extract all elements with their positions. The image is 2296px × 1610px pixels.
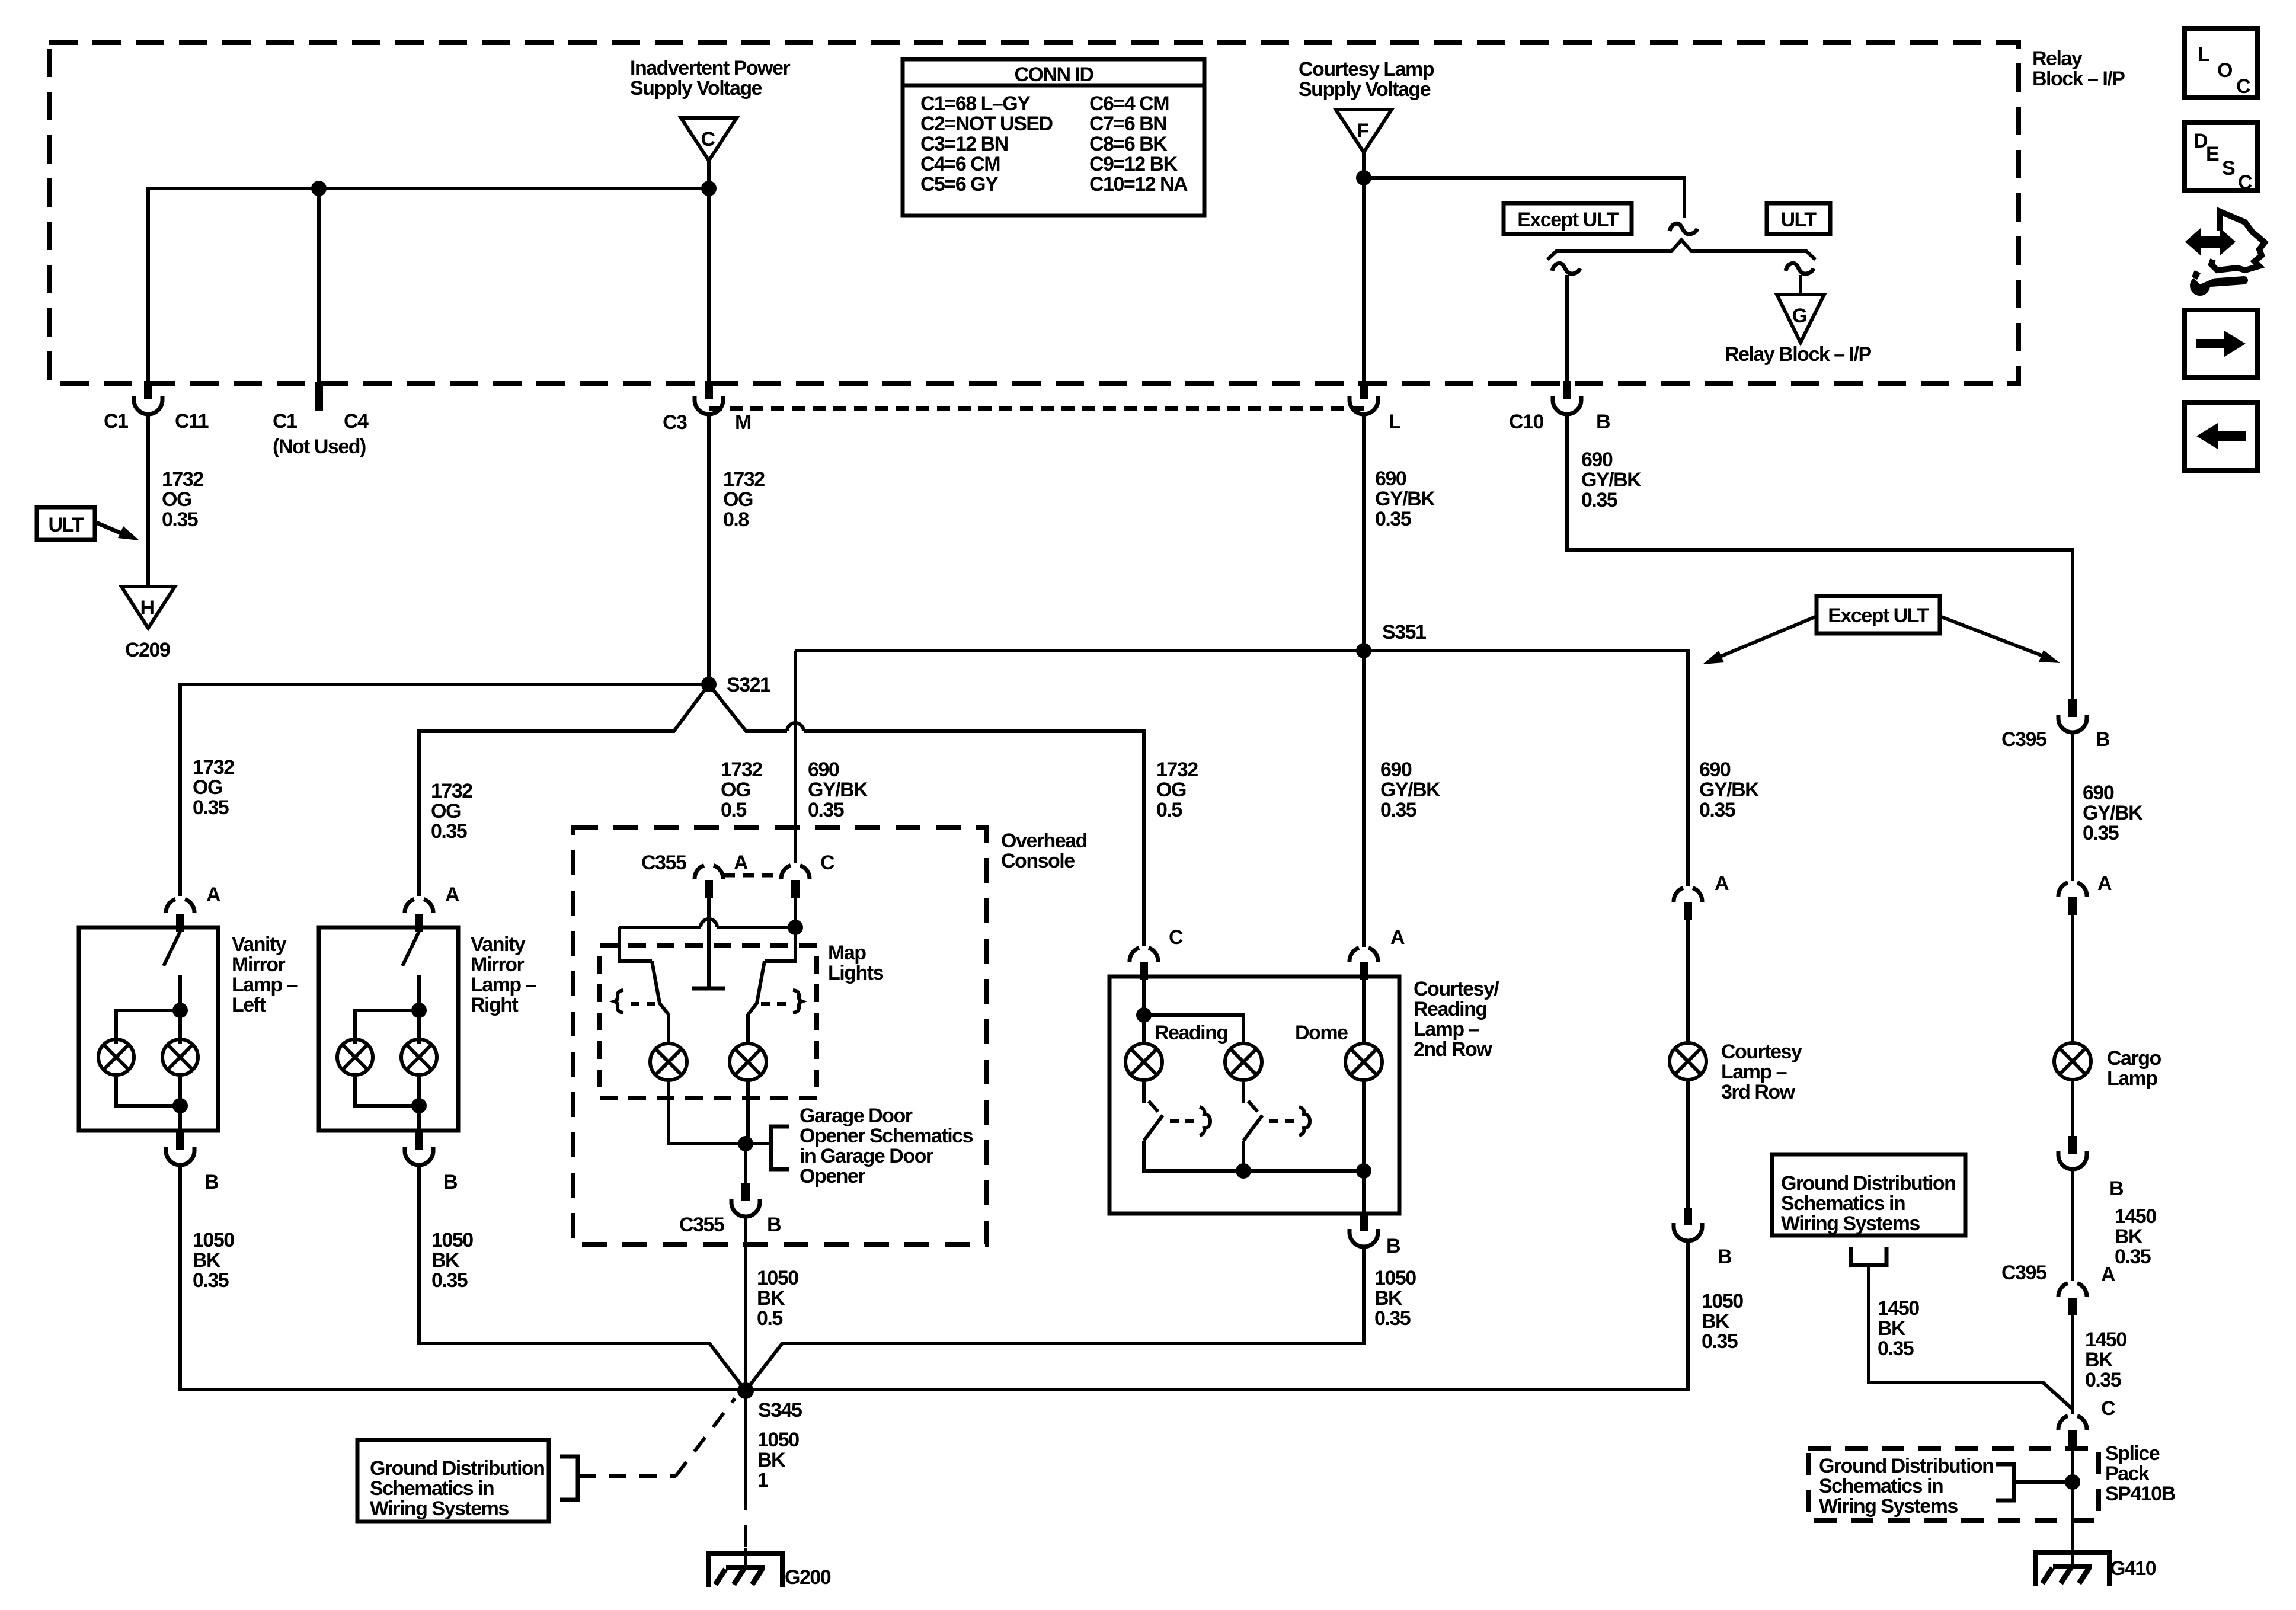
wire junction to garage door bracket [746, 1142, 771, 1145]
svg-text:Wiring Systems: Wiring Systems [1781, 1212, 1920, 1235]
svg-text:BK: BK [757, 1449, 786, 1471]
vanity left branch to lamp 1 [116, 1010, 180, 1044]
vanity right switch blade [402, 932, 419, 966]
wire C10/B down and right to cargo branch [1567, 414, 2073, 699]
svg-text:1732: 1732 [1156, 758, 1198, 781]
connector C355 B (blade and cup) [731, 1183, 760, 1217]
svg-text:GY/BK: GY/BK [1375, 488, 1435, 510]
svg-text:Courtesy: Courtesy [1721, 1041, 1802, 1063]
svg-text:1450: 1450 [1878, 1297, 1919, 1320]
svg-text:3rd Row: 3rd Row [1721, 1081, 1796, 1103]
map lamp left [650, 1044, 687, 1080]
svg-text:B: B [1596, 411, 1610, 433]
wire A to 3rd row lamp [1686, 920, 1690, 1044]
wire from F junction to break (except ULT feed) [1364, 178, 1684, 218]
wire break squiggle upper [1670, 223, 1697, 234]
svg-text:A: A [2101, 1263, 2115, 1286]
svg-text:BK: BK [1878, 1317, 1906, 1340]
svg-text:1050: 1050 [1702, 1290, 1743, 1313]
dome lamp [1345, 1044, 1382, 1080]
svg-text:Reading: Reading [1155, 1022, 1228, 1044]
svg-text:0.35: 0.35 [1581, 489, 1617, 511]
vanity left wire lamp2 down to B [178, 1075, 182, 1132]
svg-text:Splice: Splice [2105, 1442, 2160, 1465]
svg-text:C: C [701, 128, 715, 151]
svg-text:SP410B: SP410B [2105, 1483, 2176, 1505]
svg-text:1450: 1450 [2085, 1329, 2126, 1351]
svg-text:0.35: 0.35 [2085, 1369, 2121, 1391]
Overhead Console dashed box [573, 828, 986, 1244]
svg-text:Except ULT: Except ULT [1828, 604, 1929, 627]
not-used blade C1/C4 [315, 382, 323, 411]
wire C355 A down to switch common [707, 898, 711, 988]
reading lamp 2 [1225, 1044, 1262, 1080]
CONN ID header divider [903, 84, 1204, 88]
map switch left brace contact [615, 990, 623, 1013]
vanity left wire switch to junction [178, 975, 182, 1044]
wire S351 horizontal left to 690 corner [795, 649, 1364, 652]
svg-text:1732: 1732 [721, 758, 762, 781]
switch 1 contact dashes [1170, 1119, 1195, 1123]
wire junction down to C355 B [744, 1144, 747, 1183]
ULT box (left) [37, 507, 95, 540]
connector B vanity right (blade and cup) [405, 1132, 433, 1165]
wire L down to S351 and on to 2nd row lamp [1362, 413, 1366, 947]
connector C10/B (blade and cup) [1553, 381, 1581, 414]
svg-text:Schematics in: Schematics in [1781, 1192, 1905, 1215]
vanity mirror lamp right box [319, 927, 458, 1131]
svg-text:C4=6 CM: C4=6 CM [920, 153, 1000, 175]
svg-text:Lights: Lights [828, 962, 884, 984]
svg-text:0.35: 0.35 [1375, 508, 1411, 530]
switch 2 blade [1243, 1115, 1262, 1141]
next page arrow box [2185, 310, 2257, 377]
svg-text:OG: OG [162, 488, 191, 511]
svg-text:C2=NOT USED: C2=NOT USED [920, 113, 1053, 135]
svg-text:1732: 1732 [162, 468, 203, 491]
svg-text:0.5: 0.5 [721, 799, 746, 821]
svg-text:Relay: Relay [2032, 47, 2083, 70]
svg-text:C: C [2101, 1397, 2115, 1420]
ULT box (top right) [1767, 203, 1830, 234]
svg-text:C: C [820, 852, 834, 874]
svg-text:0.35: 0.35 [162, 508, 198, 531]
connector triangle C [681, 118, 737, 161]
switch 1 blade [1144, 1115, 1163, 1141]
wire C1 down to triangle H [146, 414, 150, 587]
svg-text:F: F [1357, 120, 1368, 142]
svg-text:OG: OG [721, 779, 750, 801]
svg-text:0.35: 0.35 [1702, 1330, 1738, 1353]
svg-text:Dome: Dome [1295, 1022, 1348, 1044]
wire bracket stem to cargo wire [1869, 1265, 2073, 1409]
vanity mirror lamp left box [79, 927, 218, 1131]
svg-text:G: G [1792, 305, 1807, 327]
connector B 3rd row (blade and cup) [1674, 1208, 1702, 1241]
ground stem G200 [744, 1548, 747, 1567]
svg-text:Vanity: Vanity [471, 933, 526, 956]
Map Lights dashed box [600, 945, 817, 1098]
wire switch bus 2nd row [1144, 1141, 1364, 1171]
svg-text:Lamp: Lamp [2107, 1067, 2157, 1090]
svg-text:C5=6 GY: C5=6 GY [920, 173, 999, 196]
wire 2nd row B down to S345 diagonal [746, 1247, 1364, 1391]
map switch right blade [748, 961, 765, 1014]
svg-text:C1: C1 [273, 410, 297, 433]
svg-text:(Not Used): (Not Used) [273, 436, 366, 458]
map switch right contact dashes [761, 1002, 786, 1006]
connector L (blade and cup) [1350, 381, 1378, 414]
svg-text:ULT: ULT [1780, 209, 1817, 231]
svg-text:0.35: 0.35 [193, 1269, 229, 1292]
Ground Distribution box (right) [1772, 1154, 1965, 1235]
junction dot switch 2 on bus [1236, 1163, 1251, 1179]
wire junction to reading lamp 2 [1144, 1015, 1243, 1044]
connector triangle G [1777, 295, 1824, 343]
wire A down to dome lamp [1362, 980, 1366, 1044]
vanity right wire switch to junction [417, 975, 421, 1044]
svg-text:690: 690 [1581, 449, 1613, 471]
wire 3rd row lamp down to B [1686, 1080, 1690, 1208]
wire S321 left branch to vanity left [180, 684, 709, 896]
junction dot S321 [701, 677, 717, 692]
svg-text:Opener Schematics: Opener Schematics [800, 1125, 973, 1147]
svg-text:Ground Distribution: Ground Distribution [370, 1457, 544, 1480]
map switch right outline [765, 927, 795, 961]
svg-text:S321: S321 [727, 674, 770, 696]
svg-text:0.35: 0.35 [1699, 799, 1735, 821]
svg-text:1050: 1050 [1374, 1267, 1416, 1289]
svg-text:Garage Door: Garage Door [800, 1105, 913, 1127]
svg-text:CONN ID: CONN ID [1014, 63, 1093, 86]
svg-text:B: B [204, 1171, 219, 1193]
svg-text:1732: 1732 [193, 756, 234, 779]
svg-text:0.35: 0.35 [1380, 799, 1416, 821]
wire from break down to C10/B connector [1565, 275, 1569, 382]
svg-text:C8=6 BK: C8=6 BK [1089, 133, 1168, 155]
svg-text:Relay Block – I/P: Relay Block – I/P [1725, 343, 1871, 366]
svg-text:B: B [2109, 1177, 2124, 1200]
svg-text:C1=68 L–GY: C1=68 L–GY [920, 92, 1031, 115]
svg-text:Pack: Pack [2105, 1462, 2150, 1485]
svg-text:GY/BK: GY/BK [2083, 802, 2143, 824]
LOC icon box [2185, 28, 2257, 98]
svg-text:Cargo: Cargo [2107, 1047, 2161, 1070]
svg-text:Map: Map [828, 942, 866, 964]
next page arrow [2196, 339, 2224, 348]
junction dot vanity right top [411, 1003, 427, 1018]
svg-text:E: E [2206, 143, 2219, 165]
svg-text:L: L [1389, 411, 1400, 433]
svg-text:Ground Distribution: Ground Distribution [1819, 1455, 1993, 1477]
svg-text:Left: Left [232, 994, 266, 1016]
connector C395 B (blade and cup) [2058, 699, 2087, 732]
svg-text:B: B [443, 1171, 458, 1193]
schematic navigation icon (arrow, outline, wrench) [2185, 212, 2265, 296]
brace joining ULT / except ULT branches [1547, 240, 1815, 260]
wire 690 corner down to overhead console C [794, 651, 797, 863]
svg-text:1450: 1450 [2115, 1205, 2156, 1228]
svg-text:Right: Right [471, 994, 519, 1016]
map light bus with hop over A wire [619, 926, 701, 929]
wire vanity left B down to ground bus [180, 1165, 746, 1390]
svg-text:0.5: 0.5 [1156, 799, 1182, 821]
svg-text:0.8: 0.8 [723, 508, 749, 531]
Except ULT box (lower) [1817, 596, 1940, 633]
svg-text:Schematics in: Schematics in [370, 1477, 494, 1500]
svg-text:BK: BK [757, 1287, 785, 1310]
junction dot vanity right bottom [411, 1098, 427, 1113]
svg-text:A: A [445, 884, 459, 906]
svg-text:C10: C10 [1509, 411, 1543, 433]
wire C355 C down to map bus [794, 898, 797, 927]
wire C395 down to cargo A connector [2071, 732, 2074, 881]
wire C into box to junction [1142, 980, 1146, 1015]
prev page arrow [2218, 431, 2246, 441]
connector C at splice pack [2058, 1416, 2087, 1448]
switch 1 fixed contact [1200, 1107, 1210, 1135]
cargo lamp [2054, 1043, 2091, 1080]
wire triangle C down to C3/M connector [707, 159, 711, 382]
svg-text:Mirror: Mirror [232, 953, 286, 976]
svg-text:Lamp –: Lamp – [1414, 1018, 1479, 1041]
vanity left lamp 1 [98, 1039, 134, 1075]
wire S345 down (solid part) [744, 1391, 747, 1489]
svg-text:0.35: 0.35 [193, 796, 229, 819]
svg-text:C355: C355 [641, 852, 686, 874]
svg-text:B: B [1718, 1246, 1732, 1268]
connector A 3rd row [1674, 888, 1702, 920]
Except ULT box (top) [1504, 203, 1632, 234]
wire reading lamp 1 to switch 1 [1142, 1080, 1146, 1103]
svg-text:Console: Console [1001, 850, 1075, 872]
svg-text:A: A [734, 852, 748, 874]
svg-text:A: A [2097, 872, 2112, 895]
dashed connector line C355 A to C [724, 873, 780, 878]
svg-text:1732: 1732 [723, 468, 765, 491]
svg-text:A: A [1390, 926, 1405, 949]
wire cargo lamp down to B blade [2071, 1080, 2074, 1136]
wire cargo B down to C395 A [2071, 1169, 2074, 1281]
wire C395 A down to C connector [2071, 1315, 2074, 1414]
connector C3/M (blade and cup) [695, 381, 723, 414]
svg-text:A: A [1715, 872, 1729, 895]
svg-text:BK: BK [2115, 1225, 2143, 1248]
svg-text:B: B [2096, 728, 2110, 751]
connector A 2nd row [1350, 948, 1378, 980]
svg-text:C: C [2238, 171, 2252, 194]
vanity right branch to lamp 1 [355, 1010, 419, 1044]
svg-text:Reading: Reading [1414, 998, 1487, 1020]
svg-text:690: 690 [2083, 782, 2114, 804]
connector A vanity left [166, 899, 194, 932]
ground G200 [709, 1551, 782, 1587]
map switch right brace contact [793, 990, 802, 1013]
svg-text:1050: 1050 [757, 1267, 798, 1289]
svg-text:C7=6 BN: C7=6 BN [1089, 113, 1166, 135]
wire map lamp 1 to junction [669, 1080, 746, 1144]
svg-text:C4: C4 [344, 410, 369, 433]
svg-text:0.35: 0.35 [808, 799, 844, 821]
svg-text:C1: C1 [104, 410, 128, 433]
wire C3/M down to S321 [707, 413, 711, 684]
svg-text:OG: OG [193, 776, 222, 799]
Except ULT arrow right [1940, 616, 2048, 658]
connector C395 A (lower) [2058, 1283, 2087, 1315]
svg-text:Supply Voltage: Supply Voltage [630, 77, 762, 100]
svg-text:M: M [735, 411, 751, 434]
svg-text:S: S [2222, 157, 2235, 180]
svg-text:A: A [206, 884, 220, 906]
courtesy lamp 3rd row [1670, 1043, 1706, 1080]
svg-text:GY/BK: GY/BK [1699, 779, 1760, 801]
dashed wire to G200 [744, 1489, 747, 1548]
switch 2 contact dashes [1269, 1119, 1294, 1123]
wire S351 right then down (3rd row branch) [1364, 651, 1688, 886]
svg-text:690: 690 [808, 758, 839, 781]
Splice Pack dashed box [1808, 1448, 2099, 1521]
svg-text:Courtesy/: Courtesy/ [1414, 978, 1499, 1000]
wire S321 diagonal to vanity right branch [419, 684, 709, 896]
connector B below cargo lamp (blade and cup) [2058, 1136, 2087, 1169]
vanity right wire lamp2 down to B [417, 1075, 421, 1132]
svg-text:0.35: 0.35 [2083, 822, 2119, 844]
svg-text:O: O [2217, 59, 2233, 82]
switch 2 fixed contact [1299, 1107, 1310, 1135]
wire A to cargo lamp [2071, 915, 2074, 1044]
wire break to triangle G [1799, 275, 1802, 295]
CONN ID table box [903, 59, 1204, 216]
svg-text:1: 1 [757, 1469, 768, 1491]
svg-text:Lamp –: Lamp – [471, 974, 536, 996]
bracket below right box [1851, 1247, 1886, 1265]
junction dot below F [1356, 170, 1371, 185]
connector A cargo lamp [2058, 882, 2087, 915]
svg-text:1050: 1050 [431, 1229, 473, 1251]
wire stub C1/C4 not used [317, 188, 321, 382]
svg-text:0.35: 0.35 [1878, 1337, 1914, 1360]
junction dot vanity left top [172, 1003, 188, 1018]
vanity right lamp 1 [337, 1039, 373, 1075]
svg-text:GY/BK: GY/BK [1380, 779, 1441, 801]
svg-text:OG: OG [431, 800, 461, 822]
wire reading lamp 2 to switch 2 [1242, 1080, 1245, 1103]
svg-text:BK: BK [193, 1249, 221, 1272]
junction dot S351 [1356, 643, 1371, 658]
connector B 2nd row (blade and cup) [1350, 1214, 1378, 1247]
svg-text:BK: BK [2085, 1349, 2113, 1371]
vanity left switch blade [164, 932, 180, 966]
wire bracket to splice junction [2014, 1480, 2073, 1484]
svg-text:L: L [2198, 43, 2209, 66]
power bus wire from C1 corner to C3 wire [148, 188, 709, 381]
junction dot reading feed [1136, 1007, 1152, 1023]
svg-text:690: 690 [1380, 758, 1412, 781]
vanity left lamp 2 [162, 1039, 198, 1075]
svg-text:Wiring Systems: Wiring Systems [370, 1497, 509, 1520]
Courtesy/Reading Lamp 2nd Row box [1109, 977, 1399, 1214]
relay block I/P dashed outline [49, 43, 2019, 383]
wire map lamp 2 down through junction [746, 1080, 750, 1144]
wire triangle F down to L connector [1362, 153, 1366, 382]
svg-text:C9=12 BK: C9=12 BK [1089, 153, 1178, 175]
map lamp right [730, 1044, 766, 1080]
DESC icon box [2185, 123, 2257, 190]
svg-text:ULT: ULT [48, 514, 84, 536]
map switch left blade [652, 961, 669, 1014]
wire continue to corner then down to 2nd row C [804, 731, 1144, 946]
connector B vanity left (blade and cup) [166, 1132, 194, 1165]
svg-text:OG: OG [1156, 779, 1186, 801]
Ground Distribution box (left) [357, 1440, 549, 1522]
svg-text:1732: 1732 [431, 780, 472, 802]
svg-text:0.5: 0.5 [757, 1307, 782, 1330]
svg-text:GY/BK: GY/BK [1581, 469, 1642, 491]
svg-text:Schematics in: Schematics in [1819, 1475, 1943, 1497]
wire 3rd row B down to ground bus [746, 1241, 1688, 1390]
wire hop arc over 690 wire [787, 723, 804, 731]
svg-text:BK: BK [431, 1249, 460, 1272]
wire dome lamp through bus to B [1362, 1080, 1366, 1217]
svg-text:Block – I/P: Block – I/P [2032, 68, 2125, 90]
svg-text:1050: 1050 [193, 1229, 234, 1251]
svg-text:C: C [1169, 926, 1183, 949]
junction dot map bus at C wire [788, 920, 803, 935]
wire C355 B down to S345 [744, 1217, 747, 1391]
dashed wire bracket to S345 [578, 1474, 676, 1478]
connector C 2nd row [1130, 948, 1158, 980]
junction dot S345 [737, 1382, 754, 1399]
ground G410 [2036, 1550, 2109, 1586]
svg-text:Inadvertent Power: Inadvertent Power [630, 57, 791, 79]
garage door opener bracket [771, 1126, 789, 1169]
svg-text:BK: BK [1702, 1310, 1730, 1333]
wire left blade to map lamp 1 [667, 1014, 670, 1044]
connector triangle H [121, 587, 175, 628]
map switch left contact dashes [631, 1002, 655, 1006]
wire vanity right B down to S345 diagonal [419, 1165, 746, 1391]
vanity right lamp 2 [401, 1039, 437, 1075]
svg-text:S345: S345 [758, 1399, 802, 1422]
wire junction down to reading lamp 1 [1142, 1015, 1146, 1044]
svg-text:C209: C209 [125, 639, 170, 661]
svg-text:C3: C3 [663, 411, 687, 434]
connector A vanity right [405, 899, 433, 932]
wire switch 2 down to bus [1242, 1141, 1245, 1171]
junction dot map lamps [738, 1136, 753, 1151]
svg-text:B: B [767, 1214, 781, 1236]
bracket right of left box [560, 1457, 578, 1500]
wire into splice pack [2071, 1448, 2074, 1565]
svg-text:Supply Voltage: Supply Voltage [1299, 78, 1431, 101]
svg-text:Courtesy Lamp: Courtesy Lamp [1299, 58, 1434, 81]
svg-text:0.35: 0.35 [1374, 1307, 1411, 1330]
svg-text:Ground Distribution: Ground Distribution [1781, 1172, 1955, 1195]
svg-text:2nd Row: 2nd Row [1414, 1038, 1492, 1061]
prev page arrow box [2185, 402, 2257, 470]
wire right blade to map lamp 2 [746, 1014, 750, 1044]
svg-text:G200: G200 [785, 1566, 831, 1589]
svg-text:G410: G410 [2110, 1557, 2156, 1580]
map switch left outline [619, 927, 652, 961]
junction dot splice SP410B [2065, 1474, 2080, 1490]
junction dot on power bus at C3 wire [701, 181, 717, 196]
ULT arrow to wire [95, 522, 126, 535]
connector C1/C11 (blade and cup) [134, 381, 162, 414]
svg-text:C395: C395 [2001, 728, 2046, 751]
bracket in splice box [1996, 1464, 2014, 1500]
reading lamp 1 [1125, 1044, 1162, 1080]
